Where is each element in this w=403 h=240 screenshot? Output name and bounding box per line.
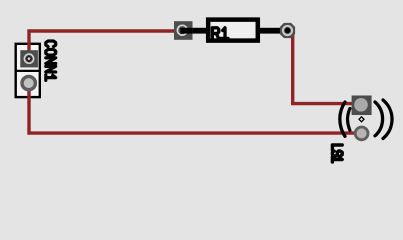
resistor R1 body	[208, 20, 258, 41]
resistor R1 pad 1 square	[174, 21, 193, 40]
wire net2: R1 pad2 down and right to LS1 top pad	[293, 33, 355, 104]
speaker LS1 left inner arc	[348, 109, 350, 131]
connector CONN1 body	[16, 44, 40, 97]
resistor R1 right lead	[256, 28, 288, 34]
speaker LS1 right outer arc	[383, 100, 392, 139]
speaker LS1 top pad square	[352, 96, 372, 116]
speaker LS1 top pad circle	[354, 98, 368, 112]
speaker LS1 center diamond	[359, 117, 364, 122]
wire net1: CONN1 pin1 to R1 pad1	[29, 31, 178, 58]
connector CONN1 pin 2 round pad	[22, 76, 35, 89]
resistor R1 pad 2 ring	[283, 26, 292, 35]
resistor R1 pad 1 ring	[177, 25, 187, 35]
resistor R1 pad 2 octagon	[280, 23, 295, 38]
speaker LS1 right inner arc	[375, 102, 383, 136]
label CONN1	[46, 41, 56, 80]
speaker LS1 left outer arc	[340, 102, 345, 136]
connector CONN1 pin 1 ring	[24, 54, 33, 63]
resistor R1 pad 2 hole	[285, 28, 290, 33]
speaker LS1 bottom pad ring	[355, 127, 368, 140]
label LS1	[332, 145, 342, 162]
wire net3: CONN1 pin2 down and right to LS1 bottom pad	[29, 83, 358, 133]
connector CONN1 cell divider	[15, 70, 41, 72]
resistor R1 left lead	[178, 28, 210, 34]
resistor R1 pad 1 lead overlap	[180, 28, 192, 34]
label R1	[212, 28, 228, 39]
connector CONN1 pin 1 square pad	[20, 50, 38, 67]
connector CONN1 pin 1 diamond hole	[26, 56, 31, 61]
